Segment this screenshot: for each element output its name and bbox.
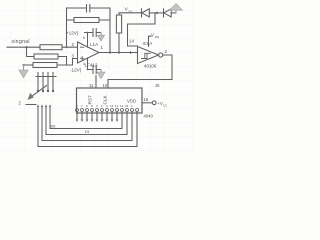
node feedback-input junction <box>65 46 67 48</box>
svg-text:CLK: CLK <box>103 95 108 105</box>
wire R5 top to Vplus <box>119 13 142 15</box>
node supply tee bottom <box>87 69 89 71</box>
svg-text:14: 14 <box>120 104 124 108</box>
wire bus Q output 1 <box>50 107 122 129</box>
wire signal input <box>7 46 40 48</box>
svg-text:V: V <box>151 33 154 38</box>
switch S1 contacts <box>36 76 56 78</box>
pin numbers row <box>76 104 133 108</box>
wire pin16 <box>142 102 152 104</box>
resistor R4 feedback <box>74 18 99 23</box>
wire VDD to pin14 <box>128 13 156 46</box>
wire -12V supply pin4 <box>88 58 94 70</box>
svg-text:10: 10 <box>103 83 108 88</box>
switch wiper arrow <box>32 86 47 97</box>
capacitor C3 bypass <box>93 66 96 74</box>
svg-text:IC6A: IC6A <box>143 41 153 46</box>
wire inverter output to CLK <box>108 55 172 88</box>
faint scan grid artifacts <box>0 0 197 157</box>
svg-text:L1A: L1A <box>90 42 99 47</box>
svg-text:12: 12 <box>115 104 119 108</box>
wire feedback top <box>67 7 87 9</box>
IC U2 4040 box <box>77 88 143 113</box>
ground small lower <box>100 70 102 73</box>
wire junction down to R2 <box>27 47 35 56</box>
svg-text:+12V): +12V) <box>66 31 79 36</box>
terminal Vcc circle <box>152 101 156 105</box>
svg-text:J5: J5 <box>155 83 160 88</box>
power VCC arrow <box>175 10 177 13</box>
capacitor C2 bypass <box>93 29 96 37</box>
resistor R5 clamp vertical <box>116 15 121 33</box>
wire R1 to op-amp pin2 <box>62 46 78 48</box>
op-amp U1 LF412 triangle <box>78 42 100 63</box>
wire +12V supply pin8 <box>85 33 94 48</box>
wire R5 bottom <box>118 33 120 53</box>
capacitor C1 feedback <box>87 5 90 13</box>
hysteresis symbol <box>142 53 151 58</box>
resistor R3 <box>33 63 57 68</box>
diode D1 <box>141 9 143 17</box>
node VDD junction <box>156 12 158 14</box>
wire feedback second row <box>67 19 111 21</box>
svg-text:(+): (+) <box>129 9 133 13</box>
svg-text:-12V): -12V) <box>70 68 82 73</box>
resistor R2 <box>34 54 58 59</box>
wire RST pin11 <box>95 76 97 89</box>
svg-text:13: 13 <box>110 104 114 108</box>
svg-text:11: 11 <box>89 83 94 88</box>
svg-text:16: 16 <box>144 97 149 102</box>
bubble output <box>159 53 163 57</box>
node ground junction <box>23 64 25 66</box>
svg-text:4: 4 <box>83 62 85 66</box>
wire bus Q output 2 <box>46 107 127 135</box>
svg-text:15: 15 <box>125 104 129 108</box>
svg-text:40106: 40106 <box>144 64 157 69</box>
wire bus Q output 3 <box>42 107 132 141</box>
wire op-amp output <box>99 52 138 54</box>
inverter IC6A 40106 <box>138 47 159 64</box>
wire R2 right side down <box>58 57 67 66</box>
svg-text:RST: RST <box>88 95 93 105</box>
node output junctions <box>109 51 111 53</box>
wire VDD label pin <box>149 36 152 46</box>
node signal junction <box>25 46 27 48</box>
svg-text:DD: DD <box>155 35 159 39</box>
ground arrow lower-left <box>23 65 25 70</box>
wire ground to R3 <box>24 64 34 66</box>
svg-text:D1: D1 <box>85 130 90 134</box>
node supply tee top <box>87 32 89 34</box>
wire feedback left vertical <box>66 8 68 47</box>
svg-text:4040: 4040 <box>144 114 154 119</box>
svg-text:CC: CC <box>163 103 167 107</box>
svg-text:D6: D6 <box>51 125 56 129</box>
wire R3 to node and up to pin3 <box>57 59 78 66</box>
wire bus Q output 4 <box>38 107 137 147</box>
connector pin circles <box>76 109 139 112</box>
pin stub wires with arrows <box>76 112 119 122</box>
ground small upper <box>100 33 102 36</box>
svg-text:VDD: VDD <box>127 99 136 104</box>
resistor R1 <box>40 45 62 50</box>
svg-text:singnal: singnal <box>12 39 30 45</box>
svg-text:14: 14 <box>129 39 134 44</box>
wire feedback right vertical <box>109 8 111 53</box>
diode D2 <box>163 9 165 17</box>
svg-text:8: 8 <box>83 36 85 40</box>
wire switch pole <box>26 104 36 106</box>
